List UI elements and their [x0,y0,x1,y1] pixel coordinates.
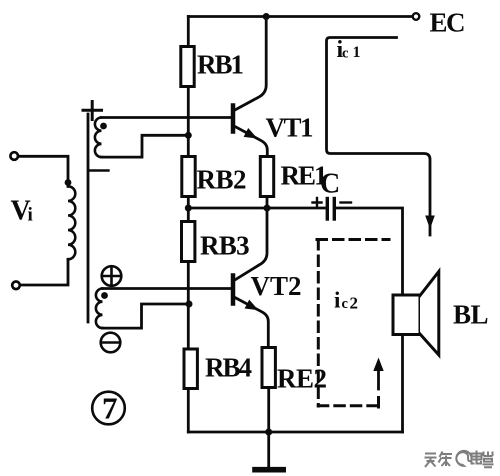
wire ic1 current path indicator [327,38,435,236]
node input terminal bottom [12,282,20,290]
polarity minus upper winding [90,169,109,171]
label BL [453,300,488,330]
wire RE1 bottom to mid node [266,197,269,209]
node junction bottom rail / ground [265,429,272,436]
watermark toutiao dianchao [425,451,495,469]
svg-text:C: C [320,169,340,200]
wire VT1 base wire from transformer [101,116,231,119]
label VT2 [251,271,302,301]
svg-text:i: i [334,288,341,313]
polarity circled minus lower winding [101,333,121,353]
wire VT2 collector vertical to mid node [234,208,267,281]
resistor RB2 [182,157,195,197]
label EC [430,8,465,38]
svg-text:1: 1 [353,44,361,61]
transistor VT1 [233,106,267,157]
svg-text:BL: BL [453,300,488,330]
label ic2 [334,288,358,313]
svg-text:RE2: RE2 [277,364,327,394]
svg-text:EC: EC [430,8,465,38]
transistor VT2 [233,276,268,348]
wire VT1 collector to top rail [234,17,266,111]
wire ladder segment RB2-to-RB3 [187,197,190,222]
transformer primary winding [19,156,76,285]
node junction ladder / upper winding return [185,132,192,139]
transformer secondary lower winding [96,289,187,329]
node junction ladder / lower winding return [186,301,193,308]
svg-text:i: i [28,205,33,226]
wire ladder segment RB4-to-bottom-rail [187,389,190,433]
wire ladder segment rail-to-RB1 [187,17,190,47]
svg-text:RB3: RB3 [200,231,249,261]
transformer core [87,114,90,322]
wire mid horizontal (ladder to capacitor) [188,207,324,210]
svg-text:VT2: VT2 [251,271,302,301]
label figure number 7 [102,391,118,426]
svg-text:RB2: RB2 [197,165,247,195]
label RB1 [197,50,244,80]
node input terminal top [10,152,18,160]
wire speaker bottom to bottom rail [401,335,404,433]
label VT1 [266,113,314,143]
label RE2 [277,364,327,394]
svg-text:c: c [342,296,349,312]
wire capacitor to speaker top [337,208,403,295]
circled figure number 7 [92,392,125,425]
polarity plus upper winding [83,102,102,120]
svg-text:RB4: RB4 [205,353,252,383]
node junction top rail / VT1 collector [263,13,270,20]
label RB3 [200,231,249,261]
label Vi [11,196,33,227]
wire ic2 arrow [373,358,383,390]
node junction mid wire / RE1-VT2 [264,205,271,212]
resistor RE2 [262,348,275,388]
resistor RE1 [260,157,273,197]
svg-text:RB1: RB1 [197,50,244,80]
svg-text:7: 7 [102,391,118,426]
ground [255,432,283,470]
label RE1 [281,161,328,191]
wire ic2 dashed loop [317,240,389,408]
wire RE2 bottom to bottom rail [267,388,270,433]
resistor RB4 [184,349,197,389]
wire ladder segment RB3-to-RB4 [187,262,190,350]
wire VT2 base wire from transformer [102,287,231,290]
transformer secondary upper winding [95,118,187,158]
wire top supply rail [188,15,413,18]
wire ladder segment RB1-to-RB2 [187,87,190,157]
svg-text:c: c [342,45,349,61]
polarity circled plus lower winding [102,266,122,286]
resistor RB3 [182,222,195,262]
node lower secondary phase dot [101,292,108,299]
speaker BL [393,272,439,356]
label RB4 [205,353,252,383]
node primary phase dot [65,179,72,186]
label ic1 [337,37,361,63]
node upper secondary phase dot [100,123,107,130]
label C [320,169,340,200]
svg-text:2: 2 [350,294,359,313]
node EC supply terminal [413,13,420,20]
label RB2 [197,165,247,195]
svg-text:VT1: VT1 [266,113,314,143]
wire bottom ground rail [188,431,402,434]
node junction ladder / mid wire [185,205,192,212]
resistor RB1 [181,47,194,87]
capacitor C [313,198,352,219]
